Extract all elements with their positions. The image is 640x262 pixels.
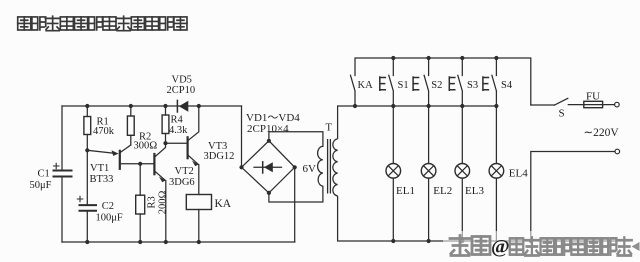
transistor VT3 base wire — [166, 142, 187, 144]
svg-text:100μF: 100μF — [96, 212, 123, 223]
resistor R4 — [162, 115, 169, 134]
transistor VT2 collector wire — [154, 143, 165, 157]
resistor R4 column wires — [165, 106, 167, 143]
svg-text:S1: S1 — [398, 80, 409, 91]
transistor VT2 emitter wire — [154, 171, 165, 242]
switch S3 — [458, 58, 463, 106]
capacitor C1 plates — [54, 171, 72, 177]
svg-text:VD1～VD4: VD1～VD4 — [246, 112, 300, 124]
wire: bottom rail left circuit — [62, 241, 295, 243]
wire: left vertical with C1 gap — [61, 106, 63, 242]
capacitor C2 wires — [86, 150, 88, 242]
svg-text:FU: FU — [586, 90, 600, 102]
wire: rail down to bridge left vertex — [241, 106, 243, 167]
watermark char 雷 — [510, 238, 524, 254]
transformer T primary coil — [333, 139, 338, 196]
switch S4 — [492, 58, 497, 106]
transistor VT3 emitter wire — [188, 155, 199, 195]
C2 plus sign — [77, 196, 83, 201]
lamp EL1 column and bulb — [392, 106, 394, 241]
VT3 emitter arrowhead — [192, 161, 199, 167]
transistor VT1 emitter wire — [87, 150, 113, 153]
svg-text:T: T — [326, 122, 333, 133]
svg-text:VT1: VT1 — [90, 163, 109, 174]
bridge inner diode cathode bar — [262, 162, 264, 173]
svg-text:KA: KA — [358, 80, 374, 91]
terminal upper 220V — [615, 102, 620, 107]
relay coil KA box — [186, 195, 211, 210]
resistor R2 column wires — [130, 106, 132, 145]
svg-text:2CP10×4: 2CP10×4 — [247, 123, 289, 135]
transformer T secondary coil — [318, 146, 323, 186]
svg-text:EL4: EL4 — [509, 167, 528, 179]
VT2 emitter arrowhead — [159, 177, 166, 183]
wire: primary top riser — [337, 106, 339, 139]
svg-text:S2: S2 — [431, 80, 442, 91]
bridge vertex dots — [239, 165, 243, 169]
VT1 emitter arrowhead — [112, 150, 119, 156]
wire: bridge top vertex to transformer secondary top — [269, 132, 323, 147]
wire: switch top rail — [355, 58, 531, 105]
resistor R1 — [84, 117, 91, 135]
contact KA — [351, 75, 356, 106]
bridge rectifier VD1-VD4 diamond — [242, 141, 295, 193]
transistor VT1 bar — [119, 151, 121, 169]
wire: through fuse FU — [568, 104, 614, 106]
svg-text:EL1: EL1 — [396, 185, 415, 197]
svg-text:S4: S4 — [501, 80, 513, 91]
svg-text:C1: C1 — [38, 168, 50, 179]
bridge inner diode line — [254, 166, 282, 168]
resistor R2 — [127, 116, 134, 135]
terminal lower 220V — [615, 149, 620, 154]
wire: bridge bottom vertex to transformer secondary bottom — [269, 186, 323, 202]
svg-text:S: S — [559, 107, 565, 119]
transistor VT3 collector wire — [188, 106, 199, 141]
watermark char 线 — [571, 238, 585, 254]
fuse FU body — [584, 101, 603, 107]
capacitor C2 plates — [80, 205, 97, 211]
switch S3 operator E — [449, 77, 455, 90]
lamp EL2 column and bulb — [428, 106, 430, 241]
svg-text:EL2: EL2 — [433, 185, 452, 197]
bridge inner diode triangle — [264, 162, 273, 172]
wire: lower 220V feed — [531, 152, 615, 242]
svg-text:EL3: EL3 — [465, 185, 484, 197]
lamp EL3 column and bulb — [461, 106, 463, 241]
watermark char 头 — [450, 236, 470, 256]
filled parts of left circuit — [85, 101, 297, 244]
svg-text:2CP10: 2CP10 — [167, 85, 196, 96]
watermark char 桥 — [602, 238, 616, 254]
diode VD5 cathode bar — [176, 100, 178, 112]
svg-text:∼220V: ∼220V — [584, 127, 620, 139]
svg-text:VT2: VT2 — [175, 166, 194, 177]
svg-text:200Ω: 200Ω — [158, 190, 169, 214]
switch S1 — [389, 58, 394, 106]
resistor R1 column wires — [86, 106, 88, 150]
junction dots left circuit — [85, 104, 89, 108]
wire: upper 220V feed with switch S — [531, 104, 555, 106]
svg-text:50μF: 50μF — [30, 180, 52, 191]
svg-text:R3: R3 — [146, 196, 157, 208]
lamp EL4 column and bulb — [495, 106, 497, 241]
wire: top rail left circuit — [62, 105, 242, 107]
wire: primary bottom to lamp bottom rail — [338, 196, 631, 241]
svg-text:BT33: BT33 — [90, 174, 114, 185]
watermark char 正 — [524, 238, 539, 256]
relay coil KA bottom wire — [198, 210, 200, 243]
title: 照明灯自动延时关灯电路 (pseudo-glyphs) — [18, 16, 187, 31]
resistor R3 column wires — [139, 164, 141, 242]
svg-text:300Ω: 300Ω — [134, 140, 158, 151]
resistor R3 — [136, 195, 145, 214]
transistor VT2 bar — [153, 154, 155, 174]
svg-text:3DG12: 3DG12 — [204, 151, 235, 162]
watermark char 架 — [617, 238, 632, 256]
transistor VT1 base2 wire — [120, 145, 131, 153]
svg-text:S3: S3 — [467, 80, 478, 91]
watermark arrow — [632, 242, 640, 251]
transistor VT1 b1 output wire to VT2 base — [120, 163, 154, 165]
svg-text:R4: R4 — [171, 115, 184, 126]
transistor VT3 bar — [187, 137, 189, 158]
diode VD5 triangle — [179, 101, 189, 112]
watermark char 电 — [541, 238, 555, 254]
svg-text:4.3k: 4.3k — [169, 125, 188, 136]
switch S2 — [424, 58, 429, 106]
svg-text:470k: 470k — [93, 126, 115, 137]
svg-text:6V: 6V — [303, 163, 317, 175]
watermark char 管 — [587, 238, 601, 254]
watermark char 条 — [472, 237, 490, 255]
wire: switch bottom rail — [338, 105, 497, 107]
svg-text:@: @ — [491, 236, 510, 258]
transformer T core — [328, 139, 331, 194]
switch S blade — [555, 98, 568, 105]
svg-text:C2: C2 — [102, 201, 114, 212]
switch S4 operator E — [483, 77, 489, 90]
svg-text:3DG6: 3DG6 — [169, 177, 195, 188]
watermark char 气 — [556, 238, 570, 254]
watermark band — [443, 231, 633, 257]
C1 plus sign — [54, 163, 60, 168]
switch S1 operator E — [380, 77, 386, 90]
switch S2 operator E — [413, 77, 419, 90]
wire: bridge right vertex down to bottom rail — [294, 167, 296, 242]
junction dots right circuit — [353, 56, 533, 243]
svg-text:KA: KA — [215, 198, 232, 210]
